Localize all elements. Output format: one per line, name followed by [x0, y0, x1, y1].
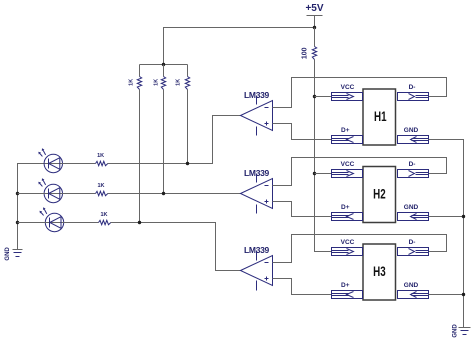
- LED D3: [40, 207, 64, 232]
- wire U3 plus input to H3 D+: [273, 279, 332, 295]
- module H3: [363, 244, 396, 300]
- junction bus row2: [16, 192, 19, 195]
- wire H3 GND to ground bus: [429, 294, 464, 296]
- pin D+ H2: [332, 204, 363, 221]
- svg-text:D-: D-: [409, 161, 416, 168]
- junction bus row3: [16, 221, 19, 224]
- resistor 1K pullup B: [154, 65, 166, 90]
- module H2: [363, 167, 396, 223]
- pin D- H1: [398, 84, 429, 101]
- op-amp U2 LM339: [241, 168, 273, 214]
- wire left cathode bus: [18, 164, 45, 250]
- wire row2 to comparator U2 output: [108, 193, 241, 195]
- svg-text:GND: GND: [404, 127, 419, 134]
- junction row1 pullup C: [186, 162, 189, 165]
- junction +5V node: [313, 26, 316, 29]
- wire LED D2 to resistor: [63, 193, 96, 195]
- wire row3 to comparator U3 output: [111, 223, 241, 271]
- svg-text:H2: H2: [373, 186, 386, 202]
- wire LED D1 to resistor: [63, 163, 96, 165]
- pin D- H3: [398, 239, 429, 256]
- junction pullup bus: [162, 63, 165, 66]
- svg-text:VCC: VCC: [341, 239, 355, 246]
- wire U1 plus input to H1 D+: [273, 124, 332, 140]
- LED D1: [38, 148, 62, 173]
- wire bus to LED D3: [18, 222, 46, 224]
- svg-text:D+: D+: [341, 127, 350, 134]
- svg-text:GND: GND: [404, 282, 419, 289]
- junction H2 GND: [462, 215, 465, 218]
- resistor 1K row3: [99, 212, 111, 225]
- svg-text:VCC: VCC: [341, 161, 355, 168]
- junction row3 pullup A: [138, 221, 141, 224]
- wire U2 plus input to H2 D+: [273, 202, 332, 217]
- svg-text:1K: 1K: [154, 79, 160, 86]
- junction row2 pullup B: [162, 192, 165, 195]
- module H1: [363, 89, 396, 145]
- wire VCC rail to H2: [315, 173, 332, 175]
- svg-text:1K: 1K: [176, 79, 182, 86]
- wire U2 minus input to H2 D-: [273, 158, 447, 186]
- wire pullup C down: [187, 90, 189, 164]
- op-amp U3 LM339: [241, 245, 273, 291]
- wire H2 GND to ground bus: [429, 216, 464, 218]
- wire pullup B down: [163, 90, 165, 194]
- svg-text:D-: D-: [409, 239, 416, 246]
- wire pullup top bus: [140, 64, 188, 66]
- pin GND H1: [398, 127, 429, 144]
- svg-text:D-: D-: [409, 84, 416, 91]
- ground GND left: [5, 247, 22, 261]
- ground GND right: [453, 324, 471, 338]
- pin VCC H2: [332, 161, 363, 178]
- resistor 100: [302, 28, 317, 60]
- svg-text:GND: GND: [453, 324, 459, 338]
- wire top rail to pullups: [164, 28, 315, 65]
- junction VCC H1: [313, 95, 316, 98]
- svg-text:D+: D+: [341, 282, 350, 289]
- wire row1 to comparator U1 output: [108, 116, 241, 164]
- resistor 1K pullup C: [176, 65, 190, 90]
- svg-text:GND: GND: [404, 204, 419, 211]
- svg-text:GND: GND: [5, 247, 11, 261]
- wire VCC rail: [315, 60, 332, 252]
- wire pullup A down: [139, 90, 141, 223]
- +5V power symbol: [305, 3, 323, 28]
- svg-text:100: 100: [302, 47, 309, 59]
- junction VCC H2: [313, 172, 316, 175]
- pin D- H2: [398, 161, 429, 178]
- svg-text:1K: 1K: [128, 79, 134, 86]
- wire bus to LED D2: [18, 193, 45, 195]
- pin GND H2: [398, 204, 429, 221]
- junction H3 GND: [462, 293, 465, 296]
- svg-text:1K: 1K: [97, 183, 104, 189]
- wire U1 minus input to H1 D-: [273, 78, 447, 108]
- wire U3 minus input to H3 D-: [273, 235, 447, 263]
- wire VCC rail to H1: [315, 96, 332, 98]
- svg-text:H3: H3: [373, 263, 386, 279]
- svg-text:+5V: +5V: [305, 3, 323, 14]
- pin VCC H1: [332, 84, 363, 101]
- svg-text:VCC: VCC: [341, 84, 355, 91]
- op-amp U1 LM339: [241, 90, 273, 136]
- wire LED D3 to resistor: [64, 222, 99, 224]
- resistor 1K pullup A: [128, 65, 141, 90]
- resistor 1K row2: [96, 183, 108, 196]
- svg-text:1K: 1K: [97, 153, 104, 159]
- wire H1 GND to ground bus: [429, 140, 464, 328]
- svg-text:1K: 1K: [100, 212, 107, 218]
- pin VCC H3: [332, 239, 363, 256]
- pin D+ H1: [332, 127, 363, 144]
- resistor 1K row1: [96, 153, 108, 166]
- pin GND H3: [398, 282, 429, 299]
- pin D+ H3: [332, 282, 363, 299]
- svg-text:H1: H1: [374, 108, 387, 124]
- LED D2: [38, 178, 62, 203]
- svg-text:D+: D+: [341, 204, 350, 211]
